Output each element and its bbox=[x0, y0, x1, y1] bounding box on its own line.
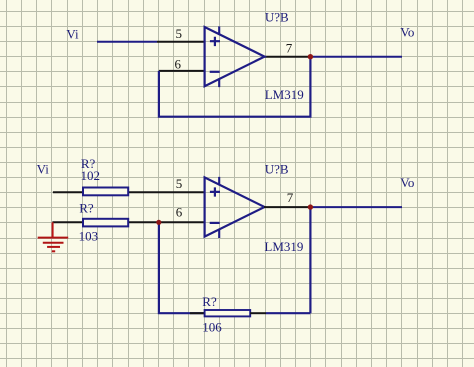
svg-text:7: 7 bbox=[286, 41, 293, 56]
svg-text:U?B: U?B bbox=[265, 161, 289, 176]
svg-text:6: 6 bbox=[175, 56, 182, 71]
svg-text:103: 103 bbox=[79, 228, 99, 243]
svg-text:R?: R? bbox=[202, 294, 217, 309]
svg-text:R?: R? bbox=[79, 200, 94, 215]
svg-text:U?B: U?B bbox=[265, 9, 289, 24]
svg-text:106: 106 bbox=[202, 319, 222, 334]
svg-text:Vo: Vo bbox=[400, 25, 414, 40]
svg-text:LM319: LM319 bbox=[265, 87, 304, 102]
svg-text:102: 102 bbox=[81, 168, 101, 183]
svg-text:Vi: Vi bbox=[37, 161, 50, 176]
svg-text:5: 5 bbox=[176, 26, 183, 41]
svg-text:Vo: Vo bbox=[400, 175, 414, 190]
svg-text:5: 5 bbox=[176, 176, 183, 191]
svg-text:6: 6 bbox=[176, 205, 183, 220]
svg-text:7: 7 bbox=[287, 190, 294, 205]
svg-text:LM319: LM319 bbox=[264, 239, 303, 254]
svg-text:Vi: Vi bbox=[66, 26, 79, 41]
